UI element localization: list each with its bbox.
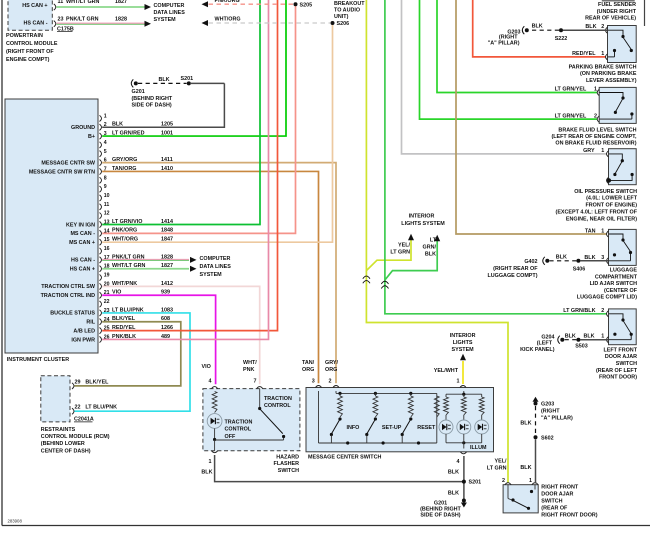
svg-text:YEL/: YEL/ [398,243,410,249]
svg-text:BLK: BLK [425,252,436,258]
svg-text:1: 1 [601,228,604,234]
svg-text:283908: 283908 [8,519,23,524]
svg-text:CONTROL MODULE: CONTROL MODULE [6,41,58,47]
svg-text:LIGHTS SYSTEM: LIGHTS SYSTEM [401,221,445,227]
svg-text:(BEHIND RIGHT: (BEHIND RIGHT [132,96,173,102]
svg-text:(BEHIND LOWER: (BEHIND LOWER [41,441,85,447]
svg-text:2: 2 [601,308,604,314]
svg-text:TRACTION CTRL IND: TRACTION CTRL IND [41,293,96,299]
svg-text:KEY IN IGN: KEY IN IGN [66,222,95,228]
svg-text:TRACTION: TRACTION [225,420,253,426]
svg-text:FRONT OF ENGINE): FRONT OF ENGINE) [585,203,637,209]
svg-text:RESET: RESET [417,425,436,431]
svg-text:BLK: BLK [532,24,543,30]
svg-text:GRY: GRY [583,148,595,154]
svg-text:DOOR AJAR: DOOR AJAR [605,354,637,360]
svg-text:(RIGHT FRONT OF: (RIGHT FRONT OF [6,49,54,55]
svg-text:4: 4 [104,140,107,146]
svg-text:(LEFT REAR OF ENGINE COMPT,: (LEFT REAR OF ENGINE COMPT, [551,134,637,140]
svg-text:5: 5 [104,149,107,155]
svg-text:8: 8 [104,175,107,181]
svg-text:COMPUTER: COMPUTER [200,256,231,262]
svg-text:SYSTEM: SYSTEM [452,347,475,353]
svg-text:REAR OF VEHICLE): REAR OF VEHICLE) [585,16,636,22]
svg-text:BLK: BLK [556,254,567,260]
svg-text:INSTRUMENT CLUSTER: INSTRUMENT CLUSTER [7,357,69,363]
svg-text:DATA LINES: DATA LINES [200,264,232,270]
svg-text:TAN/: TAN/ [302,360,315,366]
svg-text:INTERIOR: INTERIOR [409,214,435,220]
svg-text:ORG: ORG [325,367,337,373]
svg-text:PARKING BRAKE SWITCH: PARKING BRAKE SWITCH [569,65,637,71]
svg-text:HS CAN +: HS CAN + [22,3,47,9]
svg-text:2: 2 [502,478,505,484]
svg-text:LT GRN: LT GRN [390,250,410,256]
svg-text:BLK: BLK [520,465,531,471]
svg-text:LUGGAGE COMPT LID): LUGGAGE COMPT LID) [577,295,637,301]
svg-text:SYSTEM: SYSTEM [200,272,223,278]
svg-text:4: 4 [209,378,212,384]
svg-text:RIGHT FRONT DOOR): RIGHT FRONT DOOR) [541,513,598,519]
svg-text:(UNDER RIGHT: (UNDER RIGHT [597,9,637,15]
svg-text:CONTROL MODULE (RCM): CONTROL MODULE (RCM) [41,434,110,440]
svg-text:YEL/WHT: YEL/WHT [434,368,459,374]
svg-text:SIDE OF DASH): SIDE OF DASH) [420,512,460,518]
svg-text:LT GRN: LT GRN [487,466,507,472]
svg-text:MS CAN -: MS CAN - [70,231,95,237]
svg-text:(ON PARKING BRAKE: (ON PARKING BRAKE [580,71,637,77]
svg-text:SWITCH: SWITCH [541,499,562,505]
svg-text:ENGINE COMPT): ENGINE COMPT) [6,57,50,63]
svg-text:A/B LED: A/B LED [73,328,95,334]
svg-text:1: 1 [529,478,532,484]
svg-text:IGN PWR: IGN PWR [71,337,95,343]
svg-text:S201: S201 [469,480,482,486]
svg-text:ILLUM: ILLUM [470,445,487,451]
svg-text:SIDE OF DASH): SIDE OF DASH) [132,103,172,109]
svg-text:SET-UP: SET-UP [382,425,402,431]
svg-text:(4.0L: LOWER LEFT: (4.0L: LOWER LEFT [586,196,638,202]
svg-text:POWERTRAIN: POWERTRAIN [6,33,43,39]
svg-text:G203: G203 [541,401,554,407]
svg-text:G201: G201 [132,89,145,95]
svg-text:PNK/LT GRN: PNK/LT GRN [66,17,99,23]
svg-text:1: 1 [601,51,604,57]
svg-text:BLK: BLK [159,77,170,83]
svg-text:OIL PRESSURE SWITCH: OIL PRESSURE SWITCH [574,189,637,195]
svg-text:22: 22 [75,405,81,411]
svg-text:7: 7 [254,378,257,384]
svg-text:HS CAN +: HS CAN + [70,267,95,273]
svg-text:(CENTER OF: (CENTER OF [604,288,638,294]
svg-text:(REAR OF LEFT: (REAR OF LEFT [596,368,638,374]
svg-text:23: 23 [58,17,64,23]
svg-text:"A" PILLAR): "A" PILLAR) [488,41,520,47]
svg-text:CONTROL: CONTROL [225,427,252,433]
svg-text:LT GRN/YEL: LT GRN/YEL [555,113,587,119]
svg-text:BLK/YEL: BLK/YEL [85,379,109,385]
svg-text:DOOR AJAR: DOOR AJAR [541,492,573,498]
svg-text:PNK: PNK [243,367,254,373]
svg-text:1: 1 [209,459,212,465]
svg-text:(LEFT: (LEFT [537,341,553,347]
svg-text:WHT/LT GRN: WHT/LT GRN [66,0,100,5]
svg-text:10: 10 [104,193,110,199]
svg-text:1827: 1827 [115,0,127,5]
svg-text:S602: S602 [541,435,554,441]
svg-text:9: 9 [104,184,107,190]
svg-text:GRN/: GRN/ [423,245,437,251]
svg-text:(RIGHT REAR OF: (RIGHT REAR OF [493,266,538,272]
svg-text:S222: S222 [555,36,568,42]
svg-text:G402: G402 [524,259,537,265]
svg-text:KICK PANEL): KICK PANEL) [520,347,555,353]
svg-text:CONTROL: CONTROL [264,403,291,409]
svg-text:LIGHTS: LIGHTS [453,340,473,346]
svg-text:SWITCH: SWITCH [616,361,637,367]
svg-text:19: 19 [104,273,110,279]
svg-text:PNK/ORG: PNK/ORG [215,0,240,4]
svg-text:LEFT FRONT: LEFT FRONT [603,347,637,353]
svg-text:RIL: RIL [86,320,95,326]
svg-text:LID AJAR SWITCH: LID AJAR SWITCH [590,281,638,287]
svg-text:FLASHER: FLASHER [274,461,300,467]
svg-text:12: 12 [104,211,110,217]
svg-text:LUGGAGE COMPT): LUGGAGE COMPT) [487,273,537,279]
svg-text:B+: B+ [88,134,95,140]
svg-text:LEVER ASSEMBLY): LEVER ASSEMBLY) [586,78,637,84]
svg-text:YEL/: YEL/ [495,459,507,465]
svg-text:3: 3 [601,255,604,261]
svg-text:S201: S201 [181,76,194,82]
svg-text:11: 11 [58,0,64,5]
svg-text:S503: S503 [575,344,588,350]
svg-text:1: 1 [457,378,460,384]
svg-text:CENTER OF DASH): CENTER OF DASH) [41,448,91,454]
svg-text:SWITCH: SWITCH [278,468,299,474]
svg-text:2: 2 [601,24,604,30]
svg-text:BLK: BLK [584,334,595,340]
svg-text:"A" PILLAR): "A" PILLAR) [541,415,573,421]
svg-text:UNIT): UNIT) [334,14,349,20]
svg-text:29: 29 [75,379,81,385]
svg-text:ORG: ORG [302,367,314,373]
svg-text:GROUND: GROUND [71,125,95,131]
svg-text:1828: 1828 [115,17,127,23]
svg-text:LT GRN/BLK: LT GRN/BLK [563,308,595,314]
svg-text:SYSTEM: SYSTEM [154,17,177,23]
svg-text:LT: LT [430,238,437,244]
svg-text:(RIGHT: (RIGHT [541,408,560,414]
svg-text:2: 2 [594,113,597,119]
svg-text:ON BRAKE FLUID RESERVOIR): ON BRAKE FLUID RESERVOIR) [555,141,636,147]
svg-text:HS CAN -: HS CAN - [24,21,48,27]
svg-text:2: 2 [329,378,332,384]
svg-text:MS CAN +: MS CAN + [69,240,95,246]
svg-text:1: 1 [601,334,604,340]
svg-text:MESSAGE CNTR SW: MESSAGE CNTR SW [41,160,96,166]
svg-text:COMPARTMENT: COMPARTMENT [595,274,638,280]
svg-text:MESSAGE CENTER SWITCH: MESSAGE CENTER SWITCH [308,455,381,461]
svg-text:BLK: BLK [565,334,576,340]
svg-text:RED/YEL: RED/YEL [572,51,596,57]
svg-text:WHT/ORG: WHT/ORG [215,17,241,23]
svg-text:MESSAGE CNTR SW RTN: MESSAGE CNTR SW RTN [29,169,95,175]
svg-text:TAN: TAN [585,228,596,234]
svg-text:HAZARD: HAZARD [276,455,299,461]
svg-text:BLK: BLK [585,24,596,30]
svg-text:TRACTION: TRACTION [264,396,292,402]
svg-text:(EXCEPT 4.0L: LEFT FRONT OF: (EXCEPT 4.0L: LEFT FRONT OF [556,209,638,215]
svg-text:INTERIOR: INTERIOR [450,333,476,339]
svg-text:ENGINE, NEAR OIL FILTER): ENGINE, NEAR OIL FILTER) [566,216,637,222]
svg-text:OFF: OFF [225,434,236,440]
svg-text:BRAKE FLUID LEVEL SWITCH: BRAKE FLUID LEVEL SWITCH [558,127,636,133]
svg-text:BLK: BLK [520,421,531,427]
svg-text:WHT/: WHT/ [243,360,257,366]
svg-text:BUCKLE STATUS: BUCKLE STATUS [50,311,95,317]
svg-text:RIGHT FRONT: RIGHT FRONT [541,485,579,491]
svg-text:BREAKOUT: BREAKOUT [334,1,365,7]
svg-text:LT BLU/PNK: LT BLU/PNK [85,405,117,411]
svg-text:RESTRAINTS: RESTRAINTS [41,427,76,433]
svg-text:S406: S406 [573,267,586,273]
svg-text:BLK: BLK [201,469,212,475]
svg-text:HS CAN -: HS CAN - [71,258,95,264]
svg-text:4: 4 [457,459,460,465]
svg-text:3: 3 [312,378,315,384]
svg-text:LT GRN/YEL: LT GRN/YEL [555,87,587,93]
svg-text:FUEL SENDER: FUEL SENDER [598,2,636,8]
svg-text:1: 1 [594,87,597,93]
svg-text:TRACTION CTRL SW: TRACTION CTRL SW [41,284,96,290]
svg-text:22: 22 [104,299,110,305]
svg-text:(REAR OF: (REAR OF [541,506,568,512]
svg-text:FRONT DOOR): FRONT DOOR) [599,375,637,381]
svg-text:S205: S205 [300,2,313,8]
svg-text:BLK: BLK [584,255,595,261]
svg-text:DATA LINES: DATA LINES [154,10,186,16]
svg-text:COMPUTER: COMPUTER [154,3,185,9]
svg-text:1: 1 [104,113,107,119]
svg-text:VIO: VIO [202,364,211,370]
svg-text:1: 1 [601,148,604,154]
svg-text:BLK: BLK [448,469,459,475]
svg-text:INFO: INFO [347,425,360,431]
svg-text:BLK: BLK [448,491,459,497]
svg-text:LUGGAGE: LUGGAGE [610,268,638,274]
svg-text:16: 16 [104,246,110,252]
svg-text:TO AUDIO: TO AUDIO [334,8,360,14]
svg-text:11: 11 [104,202,110,208]
svg-text:S206: S206 [337,21,350,27]
svg-text:GRY/: GRY/ [325,360,338,366]
